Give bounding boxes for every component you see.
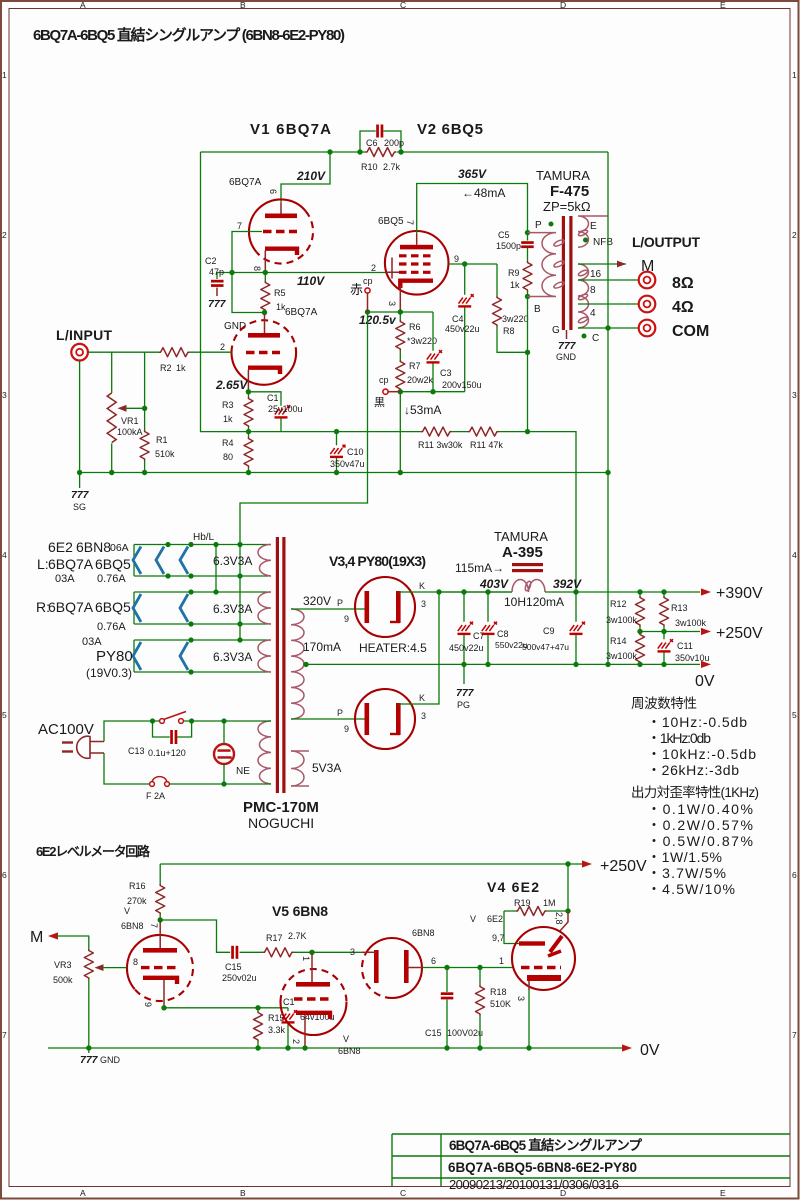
wire: V5a cathode row	[164, 1007, 288, 1009]
svg-text:周波数特性: 周波数特性	[631, 696, 697, 711]
node dots on B+ rail for dividers	[637, 589, 642, 594]
svg-text:GND: GND	[100, 1055, 121, 1065]
wire: R4 stubs	[248, 432, 250, 473]
OPT secondary petal 1	[578, 269, 589, 277]
svg-text:V4 6E2: V4 6E2	[487, 879, 539, 895]
svg-text:3: 3	[792, 390, 797, 400]
V1b plate bar	[248, 333, 280, 338]
svg-text:D: D	[560, 0, 566, 10]
svg-text:7: 7	[2, 1030, 7, 1040]
svg-text:C5: C5	[498, 230, 510, 240]
node dots on +250V rail	[637, 629, 642, 634]
svg-text:6: 6	[792, 870, 797, 880]
svg-text:6BQ5: 6BQ5	[95, 556, 131, 572]
svg-text:R4: R4	[222, 438, 234, 448]
node dot cathode/R6	[398, 309, 403, 314]
svg-text:B: B	[240, 0, 246, 10]
wire: COM tap	[578, 327, 638, 329]
OPT primary petal 2	[553, 260, 565, 269]
V5a cathode lead	[163, 980, 165, 1008]
wire: grid-leak row from C2 node down to V1b anode node	[232, 273, 265, 313]
svg-text:・3.7W/5%: ・3.7W/5%	[647, 865, 726, 881]
wire: C11 branch	[663, 632, 665, 665]
svg-text:47p: 47p	[209, 267, 224, 277]
node dot OPT P	[525, 230, 530, 235]
svg-text:9: 9	[143, 1002, 153, 1007]
V5b plate bar	[296, 982, 330, 987]
svg-text:TAMURA: TAMURA	[536, 168, 590, 183]
choke core bar top	[512, 563, 543, 566]
svg-text:P: P	[535, 220, 542, 231]
wire: V3 plate entry	[360, 608, 365, 610]
wire: C2 stub	[216, 273, 218, 280]
svg-text:cp: cp	[379, 375, 389, 385]
svg-text:C9: C9	[543, 626, 555, 636]
V4 6E2 grid dashed bar	[521, 966, 561, 969]
resistor R6	[396, 320, 405, 351]
V4 6E2 cathode lead	[528, 981, 530, 990]
svg-text:6.3V3A: 6.3V3A	[213, 602, 252, 616]
svg-text:HEATER:4.5: HEATER:4.5	[359, 641, 427, 655]
svg-text:←48mA: ←48mA	[462, 186, 505, 200]
wire: R3 stubs	[248, 392, 250, 432]
title block left line	[391, 1134, 393, 1186]
node dot NE top	[221, 718, 226, 723]
VR1 wiper arrow	[118, 405, 127, 412]
svg-text:7: 7	[149, 923, 159, 928]
border row numbers left	[2, 70, 7, 1040]
diode V5c envelope solid arc	[366, 938, 422, 998]
svg-text:3w100k: 3w100k	[606, 651, 638, 661]
svg-text:8: 8	[252, 266, 262, 271]
OPT primary petal 1	[553, 239, 565, 248]
triode V1b envelope solid bottom arc	[232, 353, 297, 385]
wire: AC bottom line	[104, 753, 271, 784]
wire: R17 to V5b anode node	[294, 951, 363, 953]
svg-text:2: 2	[371, 263, 376, 273]
svg-text:AC100V: AC100V	[38, 721, 94, 738]
svg-text:2: 2	[291, 1039, 301, 1044]
svg-text:8: 8	[590, 285, 596, 296]
svg-text:100kA: 100kA	[117, 427, 143, 437]
svg-text:C3: C3	[440, 368, 452, 378]
capacitor C15 (meter 2)	[441, 992, 454, 995]
wire: C2 to ground	[216, 288, 218, 297]
triode V5b envelope solid arc	[281, 1002, 347, 1035]
svg-text:C1: C1	[283, 997, 295, 1007]
resistor R9	[523, 261, 532, 292]
triode V5a envelope dashed arc	[135, 947, 193, 1001]
svg-text:R11 47k: R11 47k	[470, 440, 503, 450]
node dot cathode row left	[161, 1005, 166, 1010]
wire: jack sleeve drop to SG	[79, 361, 81, 488]
wire: C10 branch	[336, 432, 338, 473]
svg-text:2.7K: 2.7K	[288, 931, 307, 941]
wire: wiper riser to R2	[144, 352, 146, 408]
terminal L/INPUT jack	[71, 344, 88, 361]
wire: 210V branch to V1a plate	[281, 152, 330, 203]
OPT primary winding	[528, 233, 557, 297]
wire: AC top line	[104, 721, 271, 742]
wire: 0V rail from center tap	[306, 663, 700, 665]
wire: +250V rail	[640, 631, 700, 633]
svg-text:3: 3	[516, 996, 526, 1001]
svg-text:赤: 赤	[350, 282, 363, 297]
svg-text:03A: 03A	[82, 636, 102, 648]
NE lamp electrode bottom	[218, 756, 231, 759]
OPT secondary petal 3	[578, 316, 589, 324]
PMC AC primary winding	[258, 721, 271, 784]
svg-text:7: 7	[792, 1030, 797, 1040]
svg-text:250v02u: 250v02u	[222, 973, 257, 983]
svg-text:P: P	[337, 598, 343, 608]
node dot R15 bottom	[255, 1045, 260, 1050]
svg-text:A: A	[80, 1188, 86, 1198]
resistor R7	[396, 360, 405, 391]
svg-text:6BQ7A: 6BQ7A	[229, 177, 262, 188]
wire: 5V winding stubs	[291, 751, 309, 786]
V1a grid dashed bar	[263, 230, 297, 233]
svg-text:V: V	[470, 914, 476, 924]
svg-text:170mA: 170mA	[303, 640, 341, 654]
svg-text:C: C	[400, 1188, 406, 1198]
wire: OPT B feed riser	[527, 297, 529, 432]
title block column divider	[440, 1134, 442, 1186]
fuse contact right	[165, 782, 170, 787]
wire: C7 branch	[463, 592, 465, 664]
PMC heater winding 2	[258, 592, 271, 624]
svg-text:C15: C15	[225, 962, 242, 972]
V5b plate lead	[311, 953, 313, 982]
svg-text:7: 7	[405, 220, 415, 225]
svg-text:2: 2	[2, 230, 7, 240]
wire: V4 cathode to rail riser	[399, 592, 440, 704]
PMC 5V winding	[291, 751, 304, 786]
resistor R19	[516, 907, 547, 916]
OPT NFB winding	[578, 216, 608, 247]
svg-text:4Ω: 4Ω	[672, 299, 694, 316]
svg-text:R19: R19	[514, 898, 531, 908]
NE lamp electrode top	[218, 749, 231, 752]
AC plug prong lower	[62, 750, 73, 752]
potentiometer VR1 body	[107, 393, 116, 443]
wire: R19 row	[504, 910, 568, 912]
svg-text:V: V	[124, 906, 130, 916]
svg-text:R7: R7	[409, 361, 421, 371]
node dot R7 bottom on SG rail	[398, 470, 403, 475]
wire: heater bus row2 top	[134, 591, 271, 593]
wire: B+ rail after choke	[545, 591, 700, 593]
wire: R2 to V1b grid	[189, 351, 232, 353]
wire: V1a grid to corner	[232, 232, 262, 273]
svg-text:R11 3w30k: R11 3w30k	[418, 440, 463, 450]
node dot jack drop on SG rail	[77, 470, 82, 475]
svg-text:6BQ7A: 6BQ7A	[48, 599, 94, 615]
heater chevron row2 a	[133, 594, 141, 622]
node dot R19 right	[565, 908, 570, 913]
svg-text:↓53mA: ↓53mA	[404, 403, 441, 417]
V5a cathode bar with hook	[143, 978, 177, 984]
node dot VR1 bottom on SG rail	[109, 470, 114, 475]
svg-text:TAMURA: TAMURA	[494, 529, 548, 544]
electrolytic C1 (meter)	[282, 1010, 298, 1023]
svg-text:B: B	[534, 304, 541, 315]
svg-text:L/OUTPUT: L/OUTPUT	[632, 234, 700, 250]
wire: heater bus row2 bottom	[134, 623, 271, 625]
NE lamp dot	[229, 756, 232, 759]
svg-text:16: 16	[590, 269, 602, 280]
V5a grid dashed bar	[141, 966, 177, 969]
heater chevron row3 b	[180, 642, 188, 670]
node dot 210V branch on top rail	[327, 149, 332, 154]
svg-text:NE: NE	[236, 766, 250, 777]
wire: OPT G lead to ground	[566, 330, 568, 339]
heater chevron row2 b	[180, 594, 188, 622]
svg-text:1500p: 1500p	[496, 241, 521, 251]
svg-text:3w100k: 3w100k	[675, 618, 707, 628]
wire: R15 stubs	[257, 1008, 259, 1048]
PMC center tap dot	[303, 662, 308, 667]
svg-text:A: A	[80, 0, 86, 10]
svg-text:20090213/20100131/0306/0316: 20090213/20100131/0306/0316	[449, 1177, 619, 1192]
wire: C15b branch	[446, 968, 448, 1049]
svg-text:1: 1	[499, 956, 504, 966]
capacitor C13	[170, 730, 173, 744]
svg-text:C4: C4	[452, 314, 464, 324]
resistor R18	[476, 985, 485, 1016]
border column letters bottom	[80, 1188, 726, 1198]
svg-text:C10: C10	[347, 447, 364, 457]
terminal 8 ohm	[639, 272, 656, 289]
wire: VR1 wiper shaft	[125, 407, 145, 409]
OPT secondary winding	[578, 264, 589, 328]
node dot NE bottom	[221, 781, 226, 786]
V2 beam bracket	[386, 258, 399, 279]
+390V arrow head	[701, 588, 711, 595]
svg-text:L:: L:	[37, 556, 49, 572]
node dot VR3 on 0V rail	[86, 1045, 91, 1050]
svg-text:4: 4	[590, 308, 596, 319]
svg-text:110V: 110V	[297, 274, 325, 288]
node dot C13 left	[150, 718, 155, 723]
wire: 0V rail ground drop	[88, 1048, 90, 1053]
wire: V4 screen lead	[559, 911, 568, 932]
wire: 210V node line with R11s	[249, 432, 577, 665]
svg-text:200v150u: 200v150u	[442, 380, 482, 390]
svg-text:2: 2	[220, 342, 225, 352]
node dot +250V rail R19 riser	[565, 861, 570, 866]
svg-text:Hb/L: Hb/L	[193, 532, 215, 543]
wire: V5c right bar out	[407, 967, 422, 969]
electrolytic C7	[458, 622, 474, 635]
svg-text:1M: 1M	[543, 898, 556, 908]
svg-text:R10: R10	[361, 162, 378, 172]
svg-text:450v22u: 450v22u	[449, 643, 484, 653]
fuse contact left	[150, 782, 155, 787]
title block row divider 1	[392, 1155, 790, 1157]
wire: VR1 bottom	[111, 444, 113, 473]
svg-text:E: E	[720, 1188, 726, 1198]
svg-text:A-395: A-395	[502, 544, 543, 561]
svg-text:3w220: 3w220	[502, 314, 529, 324]
triode V1a envelope dashed arc	[257, 211, 314, 264]
wire: heater bus row3 left end	[133, 640, 135, 672]
wire: C4 drop	[464, 264, 466, 392]
svg-text:+250V: +250V	[716, 625, 763, 642]
svg-text:0.76A: 0.76A	[97, 573, 126, 585]
wire: V2 screen row	[449, 263, 498, 265]
svg-text:2.65V: 2.65V	[215, 378, 248, 392]
V1a plate bar	[265, 214, 297, 219]
OPT primary petal 3	[553, 281, 565, 290]
svg-text:VR1: VR1	[121, 416, 139, 426]
svg-text:6BQ7A-6BQ5 直結シングルアンプ: 6BQ7A-6BQ5 直結シングルアンプ	[449, 1137, 643, 1153]
wire: V5c left connection	[362, 951, 376, 953]
svg-text:120.5v: 120.5v	[359, 313, 397, 327]
svg-text:V3,4 PY80(19X3): V3,4 PY80(19X3)	[329, 553, 426, 569]
svg-text:3: 3	[2, 390, 7, 400]
wire: R13 stubs	[663, 592, 665, 632]
wire: M line to VR3	[56, 936, 89, 949]
svg-text:R16: R16	[129, 881, 146, 891]
svg-text:V: V	[343, 1034, 349, 1044]
svg-text:20w2k: 20w2k	[407, 375, 434, 385]
wire: 320V lead to V3 plate	[291, 608, 360, 610]
svg-text:6BQ7A-6BQ5-6BN8-6E2-PY80: 6BQ7A-6BQ5-6BN8-6E2-PY80	[448, 1160, 637, 1175]
svg-text:500v47+47u: 500v47+47u	[522, 642, 569, 652]
wire: heater bus row1 bottom	[134, 575, 271, 577]
wire: meter 0V rail	[48, 1047, 622, 1049]
svg-text:出力対歪率特性(1KHz): 出力対歪率特性(1KHz)	[631, 784, 759, 800]
VR3 wiper arrow	[95, 964, 104, 971]
svg-text:6BN8: 6BN8	[121, 921, 144, 931]
node dot C winding end	[582, 334, 587, 339]
node dot V1a cathode	[263, 270, 268, 275]
svg-text:392V: 392V	[553, 577, 582, 591]
svg-text:6BQ5: 6BQ5	[378, 216, 404, 227]
V2 plate bar	[400, 245, 433, 250]
svg-text:6E2: 6E2	[48, 539, 73, 555]
resistor R10 on top rail	[366, 148, 397, 157]
svg-text:6BN8: 6BN8	[412, 928, 435, 938]
choke core bar bottom	[512, 569, 543, 572]
OPT core bar right	[569, 216, 572, 330]
wire: C13 bypass loop	[153, 721, 192, 737]
wire: V5c to V4 grid	[422, 967, 513, 969]
svg-text:・4.5W/10%: ・4.5W/10%	[647, 881, 735, 897]
svg-text:3w100k: 3w100k	[606, 615, 638, 625]
svg-text:R1: R1	[156, 435, 168, 445]
svg-text:3: 3	[421, 711, 426, 721]
wire: jack to VR1 top and R2	[88, 351, 159, 353]
svg-text:R8: R8	[503, 326, 515, 336]
node dot V4 cathode on rail	[526, 1045, 531, 1050]
svg-text:9: 9	[344, 724, 349, 734]
node dot V5a anode	[158, 917, 163, 922]
svg-text:1k: 1k	[176, 363, 186, 373]
svg-text:C: C	[400, 0, 406, 10]
svg-text:R17: R17	[266, 933, 283, 943]
svg-text:450v22u: 450v22u	[445, 324, 480, 334]
svg-text:C: C	[592, 333, 599, 344]
svg-text:・10kHz:-0.5db: ・10kHz:-0.5db	[647, 746, 756, 762]
title block row divider 2	[392, 1177, 790, 1179]
V2 cathode lead	[399, 286, 401, 312]
wire: heater interconnect vertical A	[215, 545, 217, 593]
wire: heater bus row1 left end	[133, 545, 135, 577]
svg-text:R12: R12	[610, 599, 627, 609]
heater chevron row1 a	[133, 547, 141, 575]
svg-text:9,7: 9,7	[492, 933, 505, 943]
pentode V2 6BQ5 envelope	[385, 231, 449, 295]
terminal 4 ohm	[639, 296, 656, 313]
svg-text:0V: 0V	[695, 673, 715, 690]
capacitor C2	[211, 280, 224, 283]
V5c cathode bar vertical	[404, 950, 409, 983]
svg-text:6BN8: 6BN8	[338, 1046, 361, 1056]
V5b cathode lead	[304, 1015, 306, 1048]
svg-text:E: E	[720, 0, 726, 10]
wire: 16 tap to M arrow	[578, 263, 626, 265]
svg-text:9: 9	[454, 254, 459, 264]
V3 plate bar	[365, 591, 370, 623]
svg-text:500k: 500k	[53, 975, 73, 985]
node dot R8 to B line	[525, 350, 530, 355]
V4 plate bar	[365, 703, 370, 735]
svg-text:C11: C11	[677, 641, 693, 651]
V2 grid g3 dashed bar	[399, 254, 433, 257]
triode V5b envelope dashed arc	[281, 969, 347, 1002]
OPT core bar left	[562, 216, 565, 330]
svg-text:4: 4	[2, 550, 7, 560]
svg-text:6.3V3A: 6.3V3A	[213, 554, 252, 568]
node dot V5b anode	[309, 950, 314, 955]
+250V arrow head	[701, 628, 711, 635]
node dots heater row3	[188, 637, 193, 642]
svg-text:25v100u: 25v100u	[268, 404, 303, 414]
wire: meter +250V rail	[160, 863, 583, 865]
wire: PG ground drop	[463, 664, 465, 684]
svg-text:6BQ5: 6BQ5	[95, 599, 131, 615]
V5c plate bar vertical	[374, 950, 379, 983]
svg-text:365V: 365V	[458, 167, 487, 181]
svg-text:C13: C13	[128, 746, 145, 756]
PMC heater winding 3	[258, 640, 271, 672]
node dot C15b bottom	[444, 1045, 449, 1050]
node dot V1b cathode	[246, 389, 251, 394]
svg-text:GND: GND	[556, 352, 577, 362]
triode V1a 6BQ7A upper: envelope solid arc	[249, 199, 306, 252]
resistor R5	[261, 281, 270, 312]
node dot C13 right	[189, 718, 194, 723]
svg-text:270k: 270k	[127, 896, 147, 906]
svg-text:777: 777	[558, 340, 577, 352]
M arrow head	[617, 261, 626, 268]
svg-text:2,8: 2,8	[554, 912, 564, 925]
svg-text:SG: SG	[73, 502, 86, 512]
svg-text:3: 3	[350, 947, 355, 957]
node dot R7 bottom	[398, 389, 403, 394]
V4 6E2 plate bar	[519, 941, 545, 945]
node dot OPT bus on SG rail	[605, 470, 610, 475]
PMC HV secondary winding	[291, 609, 304, 719]
svg-text:R14: R14	[610, 636, 627, 646]
svg-text:8: 8	[133, 957, 138, 967]
node dot B+ feed on node line	[525, 429, 530, 434]
svg-text:C2: C2	[205, 256, 217, 266]
svg-text:6: 6	[268, 189, 278, 194]
tuning indicator V4 6E2 envelope	[512, 927, 575, 990]
